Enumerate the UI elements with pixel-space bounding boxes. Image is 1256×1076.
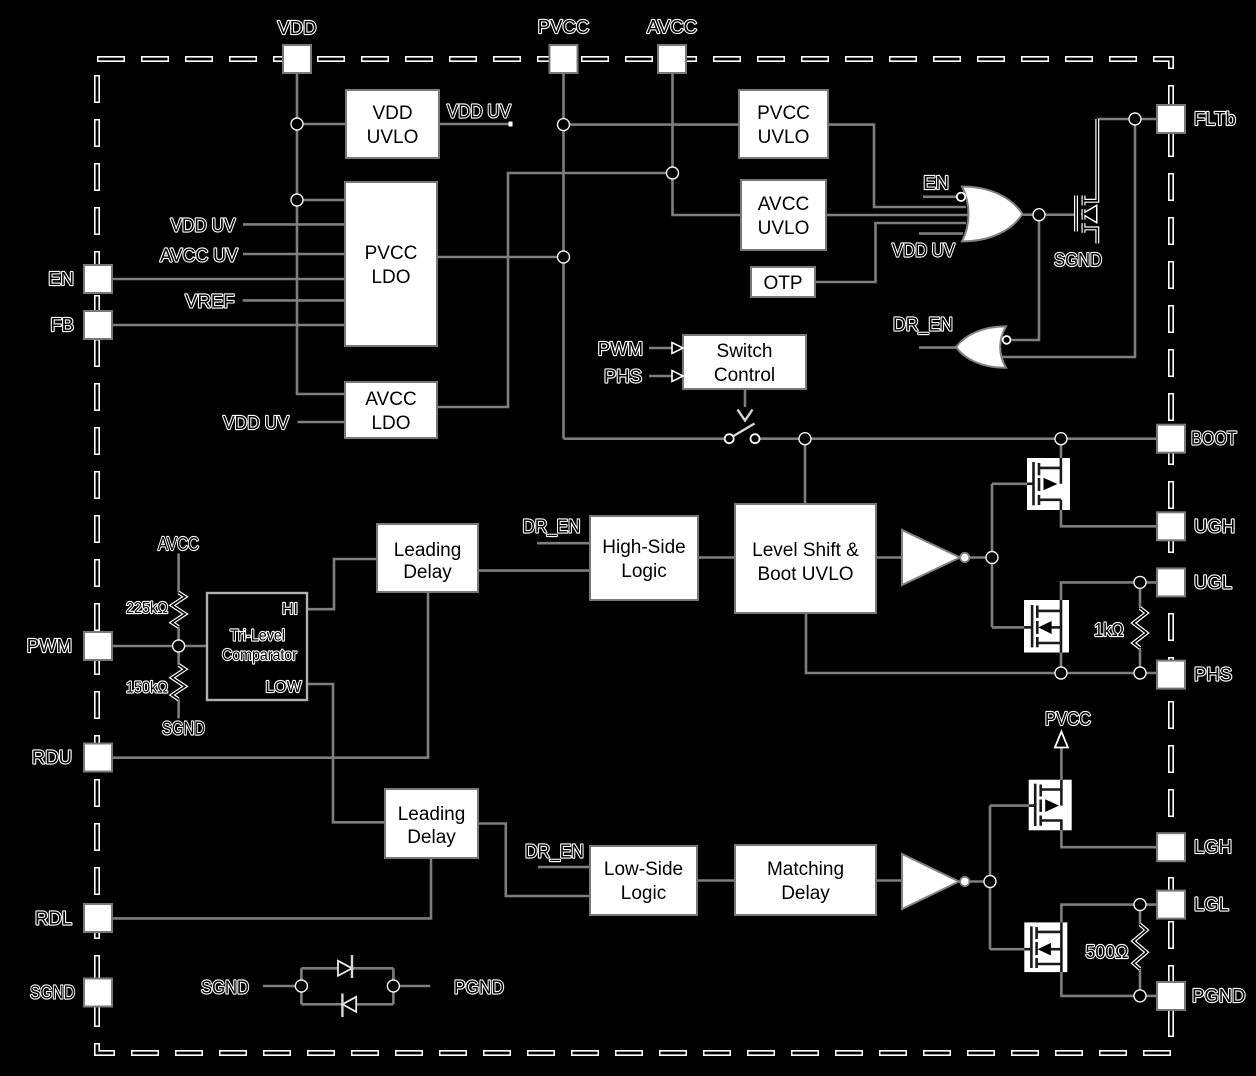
diode D1 SGND to PGND [338, 955, 352, 978]
junction PWM divider node [173, 640, 185, 652]
svg-text:VDD: VDD [372, 103, 412, 124]
svg-text:Control: Control [714, 365, 775, 386]
block Leading Delay upper [377, 524, 478, 592]
wire PVCC LDO output to PVCC net [437, 256, 564, 259]
svg-text:Leading: Leading [394, 540, 462, 561]
wire riser to low-side lower FET gate [990, 948, 1029, 951]
wire VDD UV into PVCC LDO [243, 223, 345, 226]
wire low-side lower FET drain to LGL pin [1061, 905, 1157, 923]
svg-text:UVLO: UVLO [367, 127, 419, 148]
junction high-side gate node [986, 552, 998, 564]
svg-text:500Ω: 500Ω [1086, 942, 1129, 962]
svg-text:PWM: PWM [27, 635, 72, 656]
wire VDD UV to OR gate [919, 232, 963, 235]
svg-text:Comparator: Comparator [222, 646, 297, 664]
wire BOOT junction down to high-side upper FET drain [1060, 439, 1063, 458]
wire DR_EN into Low-Side Logic [538, 866, 590, 869]
svg-text:Logic: Logic [621, 561, 666, 582]
wire EN pin to PVCC LDO [112, 278, 345, 281]
block PVCC LDO [345, 182, 437, 346]
block VDD UVLO [346, 90, 439, 158]
wire PVCC UVLO output to OR gate [828, 125, 966, 207]
wire comparator HI to Leading Delay [307, 559, 377, 609]
wire low-side buffer output to riser [968, 880, 990, 883]
resistor 225k [172, 593, 185, 627]
wire VDD pin vertical to AVCC LDO input [297, 73, 345, 394]
wire RDU pin to upper Leading Delay [112, 592, 428, 758]
wire comparator LOW to lower Leading Delay [307, 684, 385, 822]
wire PVCC line to switch [564, 437, 726, 440]
svg-text:VREF: VREF [185, 291, 234, 312]
pin UGL [1157, 568, 1185, 596]
svg-text:225kΩ: 225kΩ [126, 599, 168, 617]
junction PVCC at LDO output [558, 251, 570, 263]
junction VDD at LDO tap [291, 194, 303, 206]
svg-text:LOW: LOW [266, 679, 302, 696]
svg-text:Level Shift &: Level Shift & [752, 540, 859, 561]
wire PHS arrow into Switch Control [649, 375, 672, 378]
svg-text:SGND: SGND [1054, 249, 1102, 270]
svg-text:UVLO: UVLO [758, 127, 810, 148]
junction low-side gate node [984, 876, 996, 888]
wire Matching Delay to buffer [876, 879, 902, 882]
resistor 1k [1134, 608, 1147, 648]
wire AVCC net to AVCC pin [671, 73, 674, 173]
wire high-side lower FET source to PHS rail [1060, 653, 1063, 674]
junction diode SGND node [295, 980, 307, 992]
wire PWM arrow into Switch Control [649, 347, 672, 350]
wire AVCC divider top [177, 553, 180, 592]
wire low-side lower FET source to PGND pin [1061, 972, 1157, 996]
pin AVCC [658, 45, 686, 73]
junction PHS at resistor [1134, 667, 1146, 679]
wire PVCC arrow to low-side upper FET drain [1060, 746, 1063, 780]
svg-text:LDO: LDO [371, 267, 410, 288]
wire divider bottom to SGND [177, 700, 180, 719]
block AVCC UVLO [741, 180, 826, 250]
wire VDD junction to PVCC LDO input [297, 199, 345, 202]
wire NOR lower input to FLTb net [1002, 119, 1135, 357]
svg-text:AVCC: AVCC [365, 389, 416, 410]
wire high-side lower FET drain to UGL pin [1061, 582, 1158, 600]
transistor Q2 high-side pull-up nmos [1027, 458, 1070, 510]
svg-text:PHS: PHS [1194, 664, 1232, 685]
wire Leading Delay to High-Side Logic [478, 569, 590, 572]
svg-text:SGND: SGND [201, 977, 249, 998]
svg-text:Delay: Delay [403, 562, 452, 583]
pin LGH [1157, 833, 1185, 861]
switch S1 [725, 424, 760, 444]
pin EN [84, 265, 112, 293]
svg-text:PHS: PHS [604, 366, 642, 387]
svg-text:DR_EN: DR_EN [523, 516, 581, 538]
svg-text:RDU: RDU [32, 747, 72, 768]
pin SGND [84, 979, 112, 1007]
svg-text:UGL: UGL [1194, 571, 1232, 592]
resistor 500 [1134, 925, 1147, 969]
block Switch Control [683, 335, 806, 389]
junction U1 output node [1033, 209, 1045, 221]
or-gate U1 fault OR [962, 187, 1023, 242]
wire AVCC UVLO output to OR gate [826, 214, 972, 217]
wire VDD junction to VDD UVLO input [297, 123, 346, 126]
transistor Q1 FLTb open-drain nmos [1076, 119, 1097, 244]
arrowhead PVCC supply [1055, 732, 1068, 748]
wire high-side upper FET source to UGH pin [1061, 510, 1158, 526]
resistor 150k [172, 665, 185, 700]
svg-text:PVCC: PVCC [1045, 708, 1091, 729]
transistor Q3 high-side pull-down nmos [1024, 600, 1069, 653]
svg-text:PWM: PWM [598, 338, 643, 359]
wire DR_EN into High-Side Logic [537, 542, 590, 545]
svg-text:RDL: RDL [35, 907, 72, 928]
svg-text:FB: FB [50, 314, 74, 335]
wire Low-Side Logic to Matching Delay [697, 879, 735, 882]
wire 500 resistor stubs [1139, 905, 1142, 996]
svg-text:EN: EN [48, 268, 74, 289]
svg-text:Low-Side: Low-Side [604, 859, 683, 880]
wire DR_EN NOR output [919, 346, 956, 349]
arrowhead PWM input [672, 343, 683, 354]
svg-text:VDD UV: VDD UV [892, 240, 955, 261]
wire PVCC junction to PVCC UVLO input [564, 123, 740, 126]
wire low-side upper FET source to LGH pin [1061, 830, 1157, 847]
wire buffer output to gate riser high-side [968, 556, 992, 559]
svg-text:Leading: Leading [398, 804, 466, 825]
wire AVCC UV into PVCC LDO [243, 253, 345, 256]
block AVCC LDO [345, 382, 437, 438]
pin LGL [1157, 891, 1185, 919]
junction AVCC net [667, 167, 679, 179]
pin PWM [84, 632, 112, 660]
wire riser to low-side upper FET gate [990, 804, 1033, 807]
wire BOOT junction down to Level Shift top [804, 439, 807, 504]
svg-text:SGND: SGND [162, 718, 205, 739]
svg-text:1kΩ: 1kΩ [1094, 619, 1124, 640]
svg-text:DR_EN: DR_EN [525, 841, 584, 863]
svg-text:FLTb: FLTb [1194, 108, 1236, 129]
pin RDU [84, 744, 112, 772]
wire OR gate output to FLTb transistor gate [1023, 213, 1076, 216]
wire OTP output to OR gate [815, 223, 966, 282]
svg-text:VDD UV: VDD UV [223, 413, 289, 434]
block Tri-Level Comparator [207, 593, 307, 700]
bubble output of A1 [960, 553, 969, 562]
wire OR output down to NOR bubble input [1012, 215, 1040, 340]
pin VDD [283, 45, 311, 73]
junction UGL at resistor [1134, 576, 1146, 588]
svg-text:VDD UV: VDD UV [171, 215, 236, 236]
wire VDD UV into AVCC LDO [298, 421, 346, 424]
bubble output of A2 [960, 877, 969, 886]
svg-text:DR_EN: DR_EN [893, 314, 953, 335]
svg-text:VDD UV: VDD UV [447, 101, 511, 122]
svg-text:AVCC: AVCC [158, 534, 199, 555]
svg-text:Switch: Switch [717, 341, 773, 362]
wire VDD UVLO output VDD UV [439, 123, 511, 126]
block PVCC UVLO [739, 90, 828, 158]
junction FLTb node [1129, 113, 1141, 125]
svg-text:AVCC UV: AVCC UV [160, 245, 239, 265]
svg-text:AVCC: AVCC [758, 194, 809, 215]
wire FB pin to PVCC LDO [112, 324, 345, 327]
svg-text:PVCC: PVCC [757, 103, 810, 124]
svg-text:EN: EN [923, 172, 949, 193]
svg-text:150kΩ: 150kΩ [126, 679, 168, 697]
junction PVCC at UVLO tap [558, 119, 570, 131]
svg-text:Delay: Delay [781, 883, 830, 904]
svg-text:LDO: LDO [371, 413, 410, 434]
wire divider middle [177, 627, 180, 665]
bubble input of U2 [1003, 336, 1011, 344]
junction VDD at UVLO tap [291, 118, 303, 130]
svg-text:LGH: LGH [1194, 836, 1232, 857]
pin PGND [1157, 982, 1185, 1010]
svg-text:OTP: OTP [763, 273, 802, 294]
pin UGH [1157, 512, 1185, 540]
block High-Side Logic [590, 516, 698, 600]
pin FB [84, 311, 112, 339]
nor-gate U2 DR_EN (left pointing) [956, 326, 1006, 367]
svg-text:Delay: Delay [407, 827, 456, 848]
svg-text:HI: HI [282, 601, 298, 618]
IC boundary dashed border [97, 59, 1171, 1053]
wire PWM pin to comparator [112, 645, 207, 648]
wire PVCC pin vertical to switch [562, 73, 565, 439]
svg-text:Matching: Matching [767, 859, 844, 880]
wire SGND to diode pair [263, 985, 296, 988]
arrowhead PHS input [672, 371, 683, 382]
junction diode PGND node [387, 980, 399, 992]
svg-text:UGH: UGH [1194, 515, 1235, 536]
wire lower Leading Delay to Low-Side Logic [478, 824, 590, 897]
junction PHS at FET source [1055, 667, 1067, 679]
svg-text:VDD: VDD [277, 17, 316, 38]
wire High-Side Logic to Level Shift [698, 556, 735, 559]
svg-text:PGND: PGND [1192, 985, 1245, 1006]
svg-text:PVCC: PVCC [365, 243, 418, 264]
wire diode pair to PGND label [399, 985, 430, 988]
wire AVCC LDO output to AVCC net riser [437, 173, 673, 407]
block Leading Delay lower [385, 789, 478, 858]
wire RDL pin to lower Leading Delay [112, 858, 431, 918]
junction LGL at resistor [1134, 899, 1146, 911]
bubble EN input of U1 [957, 193, 965, 201]
pin PVCC [550, 45, 578, 73]
block Low-Side Logic [590, 846, 697, 915]
svg-text:Boot UVLO: Boot UVLO [757, 564, 853, 585]
wire EN to OR gate bubble [923, 196, 956, 199]
junction BOOT at level shift [799, 433, 811, 445]
wire low-side gate riser [989, 806, 992, 950]
transistor Q4 low-side pull-up nmos [1029, 780, 1072, 831]
wire Switch Control output to switch arrow [744, 389, 747, 407]
svg-text:PVCC: PVCC [538, 16, 589, 37]
buffer A2 low-side driver [902, 854, 959, 909]
svg-text:AVCC: AVCC [647, 16, 697, 37]
svg-text:UVLO: UVLO [758, 218, 810, 239]
wire Level Shift bottom to PHS rail and PHS pin [806, 613, 1158, 673]
wire Level Shift to buffer [876, 556, 902, 559]
svg-text:High-Side: High-Side [602, 537, 685, 558]
wire diode loop [301, 968, 393, 1004]
wire high-side gate riser [991, 484, 994, 628]
svg-text:Logic: Logic [621, 883, 666, 904]
arrowhead switch control actuator [738, 410, 753, 421]
svg-text:BOOT: BOOT [1191, 428, 1237, 449]
buffer A1 high-side driver [902, 530, 960, 585]
pin PHS [1157, 661, 1185, 689]
svg-text:PGND: PGND [454, 977, 504, 998]
wire 1k resistor stubs [1139, 582, 1142, 673]
wire switch to BOOT rail [760, 437, 1158, 440]
block OTP [751, 267, 815, 297]
wire riser to high-side lower FET gate [992, 626, 1032, 629]
diode D2 PGND to SGND [342, 994, 356, 1018]
wire FLTb drain rail [1097, 118, 1157, 121]
svg-text:Tri-Level: Tri-Level [230, 627, 285, 645]
transistor Q5 low-side pull-down nmos [1024, 922, 1067, 972]
junction BOOT at FET drain [1055, 433, 1067, 445]
wire riser to high-side upper FET gate [992, 482, 1034, 485]
pin FLTb [1157, 105, 1185, 133]
svg-text:LGL: LGL [1194, 894, 1229, 915]
junction PGND at resistor [1134, 990, 1146, 1002]
svg-text:SGND: SGND [30, 982, 75, 1003]
wire VREF into PVCC LDO [243, 299, 345, 302]
block Matching Delay [735, 845, 876, 915]
wire AVCC net to AVCC UVLO input [673, 173, 742, 215]
block Level Shift and Boot UVLO [735, 504, 876, 613]
pin RDL [84, 904, 112, 932]
pin BOOT [1157, 425, 1185, 453]
